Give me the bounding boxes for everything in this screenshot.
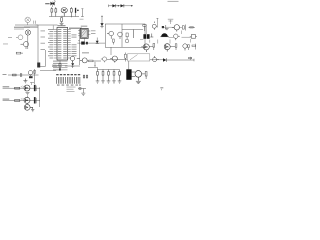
connector side bits: [83, 75, 88, 80]
wire: [101, 16, 103, 24]
wire: [122, 30, 191, 38]
transistor Q11: [25, 30, 30, 35]
resistor R8: [15, 100, 20, 102]
arrow marks: [21, 98, 24, 100]
resistor RN2: [102, 70, 104, 81]
capacitor C8: [34, 97, 37, 103]
resistor R16: [125, 53, 127, 62]
diode D6: [71, 61, 74, 68]
capacitor C10: [34, 21, 38, 25]
wire: [65, 29, 80, 66]
resistor R24: [149, 44, 154, 51]
net tick: [150, 34, 153, 38]
U1 bottom pin stubs: [62, 61, 68, 70]
resistor R6: [13, 74, 17, 76]
wire vertical: [39, 87, 41, 107]
title text: [168, 1, 179, 2]
resistor R21: [162, 25, 169, 30]
resistor RN3: [108, 70, 110, 81]
label: [3, 86, 10, 87]
node label text: [14, 27, 30, 30]
resistor R27: [192, 44, 196, 50]
diode D10 dome: [160, 33, 169, 37]
marks: [30, 83, 34, 86]
box U3: [128, 54, 150, 61]
ground: [101, 81, 105, 83]
wire: [27, 35, 29, 49]
label: [3, 73, 7, 76]
connector J1 bottom labels: [57, 85, 81, 86]
wire: [167, 57, 195, 62]
diode D1: [100, 23, 103, 28]
resistor R23: [188, 27, 195, 29]
wire: [15, 24, 58, 26]
transistor Q8: [24, 103, 32, 110]
wire: [83, 38, 85, 41]
diode D2: [112, 4, 115, 7]
transistor Q1: [107, 31, 113, 39]
U1 pin labels left: [48, 29, 53, 58]
transistor Q14: [152, 22, 156, 30]
transistor Q3: [110, 56, 117, 63]
wire rail A: [3, 87, 40, 89]
resistor R7: [15, 87, 20, 89]
crystal Y1: [70, 56, 74, 62]
node: [118, 5, 119, 6]
faint text: [67, 87, 76, 92]
wire: [164, 20, 182, 28]
capacitor C9: [143, 34, 146, 39]
arrow marks: [21, 86, 24, 88]
resistor R26: [188, 45, 190, 50]
wire: [140, 31, 191, 44]
resistor RN1: [97, 70, 99, 81]
capacitor C2: [77, 40, 105, 45]
resistor R22: [182, 25, 185, 31]
wire: [128, 61, 130, 69]
wire: [150, 59, 163, 61]
connector J1 labels: [56, 74, 80, 75]
X1 stubs: [78, 31, 90, 36]
transistor Q10: [25, 17, 30, 25]
resistor R5: [87, 60, 101, 62]
resistor R14: [126, 33, 128, 40]
bits cluster: [78, 88, 86, 94]
U1 far-left net labels: [41, 31, 46, 50]
resistor R4: [61, 18, 63, 23]
net label: [3, 37, 12, 44]
U1 bottom pin labels: [53, 61, 62, 71]
label text: [82, 51, 89, 54]
transistor Q19: [183, 44, 187, 51]
U1 pin rows right inside: [63, 29, 67, 58]
transistor Q17: [141, 44, 149, 52]
transistor Q16: [174, 34, 180, 40]
resistor R2: [55, 7, 57, 16]
U1 pin labels right: [72, 35, 77, 57]
capacitor C1: [75, 8, 79, 17]
resistor RN4: [113, 70, 115, 81]
relay box K1: [105, 24, 145, 55]
ground: [112, 81, 116, 83]
U1 pin stubs left: [54, 29, 57, 58]
resistor R13: [113, 39, 115, 45]
wire: [37, 25, 39, 67]
transistor Q15: [172, 25, 180, 32]
wire rail: [8, 74, 39, 76]
resistor RN5: [119, 70, 121, 81]
ground: [60, 23, 64, 25]
diode D5: [16, 35, 23, 40]
net stub: [81, 9, 84, 17]
wire: [109, 5, 134, 8]
node: [131, 5, 132, 6]
wire: [146, 18, 158, 34]
resistor R25: [170, 44, 177, 50]
resistor R19: [34, 69, 36, 84]
resistor R12: [16, 52, 23, 54]
capacitor C7: [37, 63, 40, 68]
coil bar: [132, 30, 134, 39]
wire rail B: [3, 100, 40, 102]
capacitor C5: [77, 58, 80, 60]
label: [168, 18, 174, 21]
U1 pin stubs right: [68, 29, 71, 58]
transistor Q9: [125, 39, 129, 43]
transistor Q6: [24, 85, 30, 91]
optocoupler U2: [80, 58, 87, 63]
crystal box X1: [80, 28, 88, 38]
label: [80, 18, 84, 21]
wire: [40, 70, 56, 72]
label: [3, 99, 10, 100]
connector J1 pins: [57, 77, 80, 84]
resistor R20: [143, 25, 146, 31]
wire bus: [49, 16, 79, 18]
transistor Q18: [164, 44, 170, 52]
ground: [118, 81, 122, 83]
net label: [45, 3, 49, 4]
diode D8: [163, 58, 167, 62]
capacitor C3: [21, 73, 22, 77]
ground mid: [26, 93, 30, 98]
transistor Q7: [24, 97, 30, 103]
mark: [160, 87, 163, 90]
label: [52, 64, 57, 67]
resistor R15: [101, 57, 107, 62]
wire: [107, 59, 128, 61]
resistor R3: [70, 7, 72, 17]
wire: [38, 50, 58, 67]
net tick: [52, 26, 54, 31]
resistor R1: [51, 7, 53, 16]
op-amp U1 body: [57, 25, 68, 60]
motor M1: [61, 8, 67, 17]
ground: [96, 81, 100, 83]
U1 pin rows left inside: [58, 29, 62, 58]
diode D3: [121, 4, 124, 7]
diode D7b: [96, 38, 99, 44]
X1 labels: [81, 26, 96, 34]
transistor Q2: [118, 32, 123, 39]
ground: [81, 93, 85, 95]
capacitor C6: [126, 69, 131, 80]
resistor R17: [189, 57, 192, 59]
ground: [31, 110, 34, 112]
resistor network comb: [88, 68, 120, 70]
diode D7: [86, 42, 88, 45]
ground: [107, 81, 111, 83]
label text: [24, 27, 82, 29]
transistor Q13: [153, 56, 160, 62]
ground: [23, 79, 27, 83]
ground: [136, 81, 141, 84]
capacitor C4: [34, 85, 37, 91]
transistor Q5: [132, 71, 142, 81]
crystal Y2: [59, 62, 61, 71]
transistor Q12: [21, 42, 29, 49]
box U4: [190, 35, 197, 39]
LED D4: [51, 0, 56, 7]
capacitor C11: [147, 34, 150, 39]
diode D9: [28, 70, 32, 78]
resistor R18: [142, 72, 147, 80]
net stub: [94, 62, 96, 66]
